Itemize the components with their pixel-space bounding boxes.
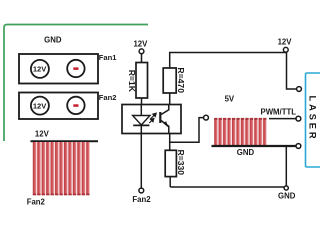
pin 12V of Fan2 [31,97,49,115]
op-amp U1 optocoupler box [122,105,181,134]
connector J1 Fan1 (terminal block) [19,54,98,84]
terminal Fan2 [139,188,144,193]
wire R3 to ground line [169,177,171,187]
svg-text:Fan2: Fan2 [27,198,46,207]
svg-text:12V: 12V [33,65,47,74]
svg-text:R=470: R=470 [176,67,186,93]
svg-text:PWM/TTL: PWM/TTL [261,107,297,116]
svg-text:GND: GND [278,192,296,201]
signal source pulse train (red bars) [214,118,266,146]
transistor Q1 inside opto [159,112,161,123]
wire 12V to R1 [141,54,143,63]
resistor R3 R=330 [165,150,176,176]
wire 12V fan rail [31,140,99,142]
connector J2 Fan2 (terminal block) [19,93,98,120]
svg-text:12V: 12V [35,129,50,138]
wire waveform baseline [212,145,297,147]
wire emitter to PWM terminal [170,118,204,143]
wire PWM to laser terminal [269,118,296,120]
wire ground bus bottom [170,186,286,188]
resistor R1 R=1K [136,63,148,99]
terminal laser 12V [297,87,302,92]
LED D1 inside opto [140,105,142,116]
wire emitter node [169,134,171,151]
svg-text:LASER: LASER [308,95,318,141]
wire R2 top riser [170,53,287,69]
svg-text:R=330: R=330 [176,150,186,176]
svg-text:Fan2: Fan2 [99,93,117,102]
pin minus of Fan2 [67,97,84,114]
terminal 12V middle [139,49,144,54]
wire R1 to opto LED anode [141,98,143,106]
wire baseline to ground bus [285,146,287,187]
svg-text:5V: 5V [225,95,235,104]
terminal PWM out [204,115,209,120]
terminal laser GND [296,144,301,149]
fan M1 Fan2 load (red coil bars) [33,142,90,195]
svg-text:12V: 12V [278,37,293,46]
pin 12V of Fan1 [31,60,49,78]
terminal 12V right [283,47,288,52]
svg-text:R=1K: R=1K [127,70,137,93]
svg-text:Fan2: Fan2 [132,195,151,204]
svg-text:12V: 12V [33,101,47,110]
wire R2 to opto collector [169,93,171,106]
terminal laser PWM/TTL [296,116,301,121]
node GND bottom junction [284,186,288,190]
green breadboard frame (top-left corner, cropped) [4,25,148,142]
svg-text:GND: GND [237,148,255,157]
svg-text:GND: GND [44,36,62,45]
laser module bracket [306,73,320,167]
svg-text:12V: 12V [133,39,148,48]
svg-text:Fan1: Fan1 [99,53,118,62]
wire opto LED cathode to Fan2 terminal [140,134,142,189]
resistor R2 R=470 [163,68,176,93]
light arrows [149,113,156,123]
wire 12V right down to laser [287,53,297,90]
pin minus of Fan1 [67,60,84,77]
